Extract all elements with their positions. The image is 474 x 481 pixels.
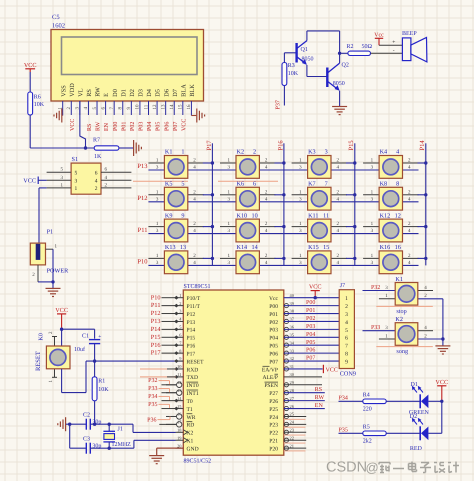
wire K0 to reset node (62, 361, 86, 393)
resistor R4 220 (363, 392, 386, 412)
svg-text:K15: K15 (308, 244, 319, 251)
svg-text:P04: P04 (147, 122, 153, 131)
wire TXD (140, 376, 176, 378)
net label P16 wire (151, 342, 176, 349)
svg-text:2: 2 (179, 301, 181, 306)
resistor R3 (282, 63, 299, 86)
svg-text:Q1: Q1 (301, 47, 308, 53)
wire crystal to X1 (109, 440, 175, 448)
crystal J1 12MHZ (103, 424, 131, 448)
net label P03 wire to J7 (284, 324, 339, 330)
salmon wire under song (376, 346, 433, 348)
svg-text:8050: 8050 (302, 57, 314, 63)
svg-text:RS: RS (86, 89, 93, 97)
net label P06 wire to J7 (284, 348, 339, 354)
wire LCD VL pin3 down to R7 node (80, 101, 86, 148)
junction K10 column (282, 225, 285, 228)
svg-text:X1: X1 (187, 439, 194, 445)
svg-text:10uf: 10uf (74, 346, 85, 353)
svg-text:2: 2 (253, 149, 256, 156)
junction pin40 VCC (314, 296, 317, 299)
svg-text:Q2: Q2 (342, 63, 349, 69)
junction R1 ground rail (93, 423, 96, 426)
junction K15 column (353, 257, 356, 260)
junction K7 column (353, 193, 356, 196)
wire D1 to VCC rail (428, 400, 441, 402)
key switch K5 (148, 181, 212, 211)
svg-text:12: 12 (395, 212, 401, 219)
svg-text:ALE/P: ALE/P (262, 375, 278, 381)
MCU left pin stubs (166, 296, 188, 448)
svg-text:14: 14 (252, 244, 258, 251)
svg-text:15: 15 (178, 104, 184, 110)
wire Q1 emitter to Q2 base (307, 65, 327, 77)
svg-text:6: 6 (345, 336, 348, 342)
svg-text:3: 3 (325, 149, 328, 156)
net label P07 wire to J7 (284, 356, 339, 362)
wire PSEN (284, 384, 322, 386)
LCD pin names (60, 83, 196, 97)
svg-text:P34: P34 (148, 394, 157, 400)
svg-text:P10: P10 (137, 259, 147, 266)
net label P04 wire to J7 (284, 332, 339, 338)
svg-text:50Ω: 50Ω (362, 44, 373, 50)
LCD pins 1-16 stubs (63, 101, 192, 116)
net label RW wire (284, 395, 325, 401)
net label P00 wire to J7 (284, 300, 339, 306)
svg-text:4: 4 (396, 149, 399, 156)
svg-text:P12: P12 (137, 195, 147, 202)
svg-text:K11: K11 (308, 212, 318, 219)
svg-text:16: 16 (186, 104, 192, 110)
column wire P17 (211, 143, 213, 265)
capacitor C1 10uf (74, 334, 101, 362)
svg-text:VDD: VDD (69, 83, 76, 97)
svg-text:11: 11 (323, 212, 329, 219)
connector J7 CON9 (339, 283, 356, 378)
key switch K7 (292, 181, 355, 211)
svg-text:P36: P36 (147, 417, 156, 423)
resistor R6 (28, 92, 45, 115)
svg-text:P34: P34 (339, 396, 348, 402)
svg-text:EN: EN (104, 122, 110, 131)
svg-text:32: 32 (290, 356, 294, 361)
net label P11 (138, 227, 148, 234)
junction K12 column (424, 225, 427, 228)
svg-text:P06: P06 (164, 122, 170, 131)
svg-text:P37: P37 (276, 100, 282, 109)
label 89C51/C52 (184, 459, 212, 465)
svg-text:D6: D6 (163, 89, 170, 97)
ground under keys (435, 339, 450, 354)
net label RW under LCD pin 5 (96, 121, 102, 131)
net label RS wire (284, 387, 325, 393)
svg-text:11: 11 (143, 104, 149, 109)
svg-text:T1: T1 (187, 407, 193, 413)
key switch K2 song (363, 316, 443, 355)
svg-text:stop: stop (396, 308, 406, 315)
net label P12 wire (151, 310, 176, 317)
svg-text:P15: P15 (348, 140, 355, 150)
net label P12 (137, 195, 147, 202)
watermark CSDN (326, 460, 459, 476)
net label P04 under LCD pin 11 (147, 122, 153, 131)
key switch K14 (220, 244, 284, 274)
svg-text:10: 10 (135, 104, 141, 110)
svg-text:VL: VL (77, 88, 84, 97)
svg-text:K1: K1 (165, 149, 173, 156)
net label EN under LCD pin 6 (104, 122, 110, 131)
wire rail to K0 (61, 329, 63, 346)
wire R6 to node (30, 115, 94, 148)
ground at LCD pin 1 VSS (54, 109, 63, 123)
svg-text:P13: P13 (151, 318, 161, 325)
svg-text:D2: D2 (129, 89, 136, 97)
svg-text:2: 2 (95, 186, 98, 192)
svg-text:13: 13 (180, 244, 186, 251)
key switch K9 (148, 212, 212, 242)
ground at LCD pin 16 BLK (191, 109, 204, 123)
net label VCC under LCD pin 15 (181, 119, 187, 131)
junction K6 column (282, 193, 285, 196)
svg-text:INT1: INT1 (187, 391, 199, 397)
svg-text:22: 22 (290, 435, 294, 440)
column wire P14 (425, 143, 427, 265)
svg-text:K9: K9 (165, 212, 173, 219)
svg-text:P14: P14 (187, 328, 196, 334)
svg-text:RW: RW (96, 121, 102, 131)
svg-text:P12: P12 (151, 310, 161, 317)
svg-text:P32: P32 (148, 378, 157, 384)
svg-text:T0: T0 (187, 399, 193, 405)
svg-text:D1: D1 (411, 382, 418, 388)
svg-text:1: 1 (75, 186, 78, 192)
capacitor C2 30p (70, 413, 110, 430)
svg-text:16: 16 (395, 244, 401, 251)
label C5 (52, 14, 60, 21)
svg-text:RS: RS (87, 124, 93, 131)
net label P34 wire (148, 394, 175, 401)
row wire P11 (148, 233, 418, 235)
wire ground rail down to C3 (70, 424, 87, 448)
net label P15 wire (151, 334, 176, 341)
svg-text:CON9: CON9 (340, 371, 356, 378)
svg-text:VCC: VCC (309, 283, 322, 290)
svg-text:VCC: VCC (55, 307, 68, 314)
svg-text:CSDN: CSDN (326, 460, 367, 476)
svg-text:1: 1 (181, 149, 184, 156)
svg-text:C3: C3 (83, 437, 90, 443)
svg-text:P05: P05 (156, 122, 162, 131)
svg-text:P11: P11 (138, 227, 148, 234)
resistor R2 50ohm (347, 44, 373, 56)
wire R5 to D2 (386, 432, 420, 434)
svg-text:K8: K8 (380, 181, 388, 188)
junction K2 column (282, 161, 285, 164)
svg-text:R7: R7 (93, 138, 100, 144)
svg-text:X2: X2 (187, 431, 194, 437)
junction K8 column (424, 193, 427, 196)
wire R1 to ground rail (94, 401, 96, 424)
ground right of R7 (134, 140, 142, 156)
wire P1 pin1 down (52, 249, 54, 282)
svg-text:Vcc: Vcc (374, 33, 384, 39)
net label P01 under LCD pin 8 (121, 122, 127, 131)
net label P13 wire (151, 318, 176, 325)
capacitor C3 30p (83, 437, 109, 454)
key switch K12 (363, 212, 426, 242)
svg-text:2k2: 2k2 (363, 438, 372, 445)
svg-text:3: 3 (75, 179, 78, 185)
svg-text:RESET: RESET (35, 351, 42, 371)
junction K9 column (211, 225, 214, 228)
net label P34 wire (339, 396, 363, 402)
label 1602 (52, 23, 65, 30)
svg-text:6: 6 (95, 170, 98, 176)
key switch K6 (220, 181, 284, 211)
wire R3 to Q1 base (284, 53, 296, 63)
svg-text:BLA: BLA (180, 84, 187, 97)
svg-text:R4: R4 (363, 392, 370, 398)
svg-text:PSEN: PSEN (264, 383, 278, 389)
net label P07 under LCD pin 14 (173, 122, 179, 131)
svg-text:K12: K12 (380, 212, 391, 219)
svg-text:8050: 8050 (333, 81, 345, 87)
svg-text:BEEP: BEEP (402, 31, 417, 37)
net label P36 wire (147, 416, 170, 423)
net label P01 wire to J7 (284, 308, 339, 314)
svg-text:Vcc: Vcc (269, 296, 279, 302)
svg-text:1: 1 (179, 293, 181, 298)
svg-text:+: + (392, 40, 395, 46)
net label RS under LCD pin 4 (87, 124, 93, 131)
junction K13 column (211, 257, 214, 260)
net label P06 under LCD pin 13 (164, 122, 170, 131)
power VCC reset rail (55, 307, 68, 329)
svg-text:R5: R5 (363, 424, 370, 430)
svg-text:P00: P00 (269, 304, 278, 310)
svg-text:P35: P35 (148, 402, 157, 408)
svg-text:P14: P14 (151, 326, 162, 333)
junction crystal bottom (108, 447, 111, 450)
LED D2 RED (410, 414, 429, 452)
svg-text:RXD: RXD (187, 367, 199, 373)
svg-text:P27: P27 (269, 391, 278, 397)
junction VCC rail (60, 328, 63, 331)
junction K11 column (353, 225, 356, 228)
net label P33 wire (148, 386, 176, 393)
ground under Q2 (332, 107, 347, 115)
salmon wire under stop (376, 305, 433, 307)
svg-text:P01: P01 (121, 122, 127, 131)
svg-text:VCC: VCC (326, 367, 338, 373)
svg-text:P10/T: P10/T (187, 296, 201, 302)
net label P35 wire (339, 428, 363, 434)
wire RD stub (159, 423, 176, 425)
svg-text:INT0: INT0 (187, 383, 199, 389)
svg-text:P11/T: P11/T (187, 304, 201, 310)
net label P16 (277, 140, 284, 151)
junction R2 node (338, 52, 341, 55)
svg-text:89C51/C52: 89C51/C52 (184, 459, 212, 465)
power VCC at beeper (374, 33, 384, 46)
ground left of C2 (58, 417, 70, 431)
transistor Q1 8050 (297, 41, 314, 65)
svg-text:J7: J7 (340, 283, 345, 289)
svg-text:P33: P33 (148, 386, 157, 392)
wire pin40 to J7 (284, 297, 339, 299)
svg-text:P13: P13 (187, 320, 196, 326)
key switch K11 (292, 212, 355, 242)
svg-text:K7: K7 (308, 181, 316, 188)
svg-text:8: 8 (396, 181, 399, 188)
svg-text:VSS: VSS (60, 85, 67, 97)
svg-text:P15: P15 (151, 334, 161, 341)
svg-text:4: 4 (95, 179, 98, 185)
beeper BEEP (402, 31, 427, 62)
svg-text:song: song (396, 348, 408, 355)
svg-text:J1: J1 (118, 427, 123, 433)
svg-text:K6: K6 (237, 181, 245, 188)
key switch K1 (148, 149, 212, 179)
key switch K13 (148, 244, 212, 274)
svg-text:P1: P1 (47, 229, 54, 236)
MCU pin names and numbers (177, 293, 295, 453)
net label P13 (137, 163, 147, 170)
svg-text:14: 14 (169, 104, 175, 110)
svg-text:VCC: VCC (23, 178, 36, 185)
wire R4 to D1 (386, 400, 420, 402)
net label P02 under LCD pin 9 (130, 122, 136, 131)
svg-text:9: 9 (181, 212, 184, 219)
wire rail to C1 (62, 329, 95, 339)
svg-text:RESET: RESET (187, 359, 205, 365)
svg-text:2: 2 (345, 304, 348, 310)
net label P17 (206, 140, 213, 151)
wire ALE (284, 376, 322, 378)
svg-text:15: 15 (323, 244, 329, 251)
ground at MCU GND (149, 456, 164, 464)
net label P14 (419, 140, 426, 151)
LED D1 GREEN (409, 382, 430, 416)
svg-text:VCC: VCC (24, 62, 37, 69)
net label EN wire (284, 403, 325, 409)
svg-text:R6: R6 (34, 95, 41, 101)
svg-text:STC89C51: STC89C51 (184, 284, 211, 290)
svg-text:5: 5 (181, 181, 184, 188)
svg-text:S1: S1 (72, 156, 79, 163)
net label P17 wire (151, 350, 176, 357)
svg-text:R3: R3 (288, 63, 295, 69)
key switch K2 (220, 149, 284, 179)
svg-text:P03: P03 (269, 328, 278, 334)
wire node to R2 (340, 52, 348, 54)
net label P14 wire (151, 326, 176, 333)
MCU right stubs P24-P20 (284, 416, 306, 450)
junction crystal top (108, 423, 111, 426)
svg-text:31: 31 (290, 364, 294, 369)
svg-text:K5: K5 (165, 181, 173, 188)
svg-text:P35: P35 (339, 428, 348, 434)
svg-text:TXD: TXD (187, 375, 199, 381)
svg-text:D7: D7 (172, 89, 179, 97)
net label P37 (276, 100, 282, 109)
LCD module C5 1602 (51, 30, 204, 102)
svg-text:K4: K4 (380, 149, 388, 156)
svg-text:D0: D0 (112, 89, 119, 97)
salmon wire segment row1b (218, 180, 278, 182)
row wire P13 (148, 169, 418, 171)
svg-text:VCC: VCC (435, 379, 448, 386)
junction K1 column (211, 161, 214, 164)
svg-text:10K: 10K (34, 102, 45, 108)
junction K16 column (424, 257, 427, 260)
svg-text:1: 1 (345, 296, 348, 302)
svg-text:P03: P03 (139, 122, 145, 131)
svg-text:P25: P25 (269, 407, 278, 413)
wire keys to ground (442, 299, 444, 339)
svg-text:RD: RD (187, 423, 195, 429)
net label P10 (137, 259, 147, 266)
svg-text:RW: RW (95, 87, 102, 97)
ground under P1 (46, 282, 61, 297)
svg-text:C1: C1 (82, 334, 89, 340)
wire EA/VP to VCC (284, 365, 338, 374)
svg-text:P15: P15 (187, 336, 196, 342)
svg-text:P02: P02 (130, 122, 136, 131)
svg-text:P16: P16 (151, 342, 161, 349)
svg-text:-: - (393, 48, 395, 54)
svg-text:5: 5 (345, 328, 348, 334)
svg-text:P04: P04 (269, 336, 278, 342)
power VCC at LEDs (435, 379, 448, 401)
svg-text:K14: K14 (237, 244, 248, 251)
switch S1 (47, 156, 132, 194)
svg-text:10K: 10K (288, 71, 299, 77)
net label P15 (348, 140, 355, 150)
svg-text:WR: WR (187, 415, 196, 421)
svg-text:6: 6 (253, 181, 256, 188)
wire VCC to beeper plus (379, 40, 402, 55)
svg-text:K13: K13 (165, 244, 176, 251)
svg-text:P07: P07 (269, 359, 278, 365)
net label P00 under LCD pin 7 (113, 122, 119, 131)
connector P1 POWER (30, 229, 69, 279)
resistor R1 (92, 361, 109, 401)
power VCC top left (24, 62, 37, 72)
svg-text:D5: D5 (155, 89, 162, 97)
wire R7 to ground (119, 147, 133, 149)
svg-text:P23: P23 (269, 423, 278, 429)
key switch K8 (363, 181, 426, 211)
svg-text:P16: P16 (187, 344, 196, 350)
power VCC at S1 (23, 177, 46, 185)
key switch K4 (363, 149, 426, 179)
junction ground rail split (68, 423, 71, 426)
key switch K1 stop (363, 276, 443, 315)
svg-text:7: 7 (325, 181, 328, 188)
resistor R7 (93, 138, 119, 160)
net label P35 wire (148, 402, 175, 409)
svg-text:P10: P10 (151, 294, 161, 301)
label STC89C51 (184, 284, 211, 290)
MCU right pin bubbles (284, 304, 288, 451)
svg-text:BLK: BLK (189, 84, 196, 97)
svg-text:P20: P20 (269, 446, 278, 452)
svg-text:P07: P07 (173, 122, 179, 131)
svg-text:5: 5 (75, 170, 78, 176)
svg-text:P17: P17 (206, 140, 213, 151)
